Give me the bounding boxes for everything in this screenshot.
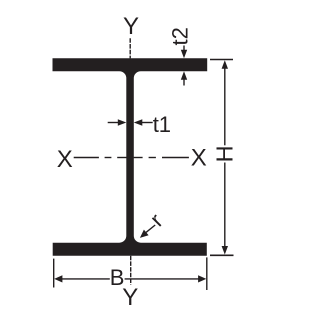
svg-text:H: H [211, 145, 237, 162]
centerline X-X left long dash [74, 157, 99, 159]
svg-text:Y: Y [122, 284, 138, 311]
t2 lower arrow (pointing up to flange bottom) [181, 71, 187, 85]
centerline Y-Y top segment [129, 38, 131, 58]
H dimension bottom extension tick [210, 254, 234, 256]
H dimension top extension tick [210, 59, 233, 61]
svg-text:r: r [145, 208, 168, 231]
t1 right arrow (pointing left at web) [134, 119, 153, 125]
t2 upper arrow (pointing down to flange top) [181, 46, 187, 59]
centerline X-X left short dash [105, 157, 112, 159]
svg-text:X: X [191, 145, 207, 172]
B dimension line with arrows [54, 275, 206, 282]
svg-text:X: X [57, 146, 73, 173]
centerline X-X right long dash [162, 157, 189, 159]
centerline X-X right short dash [149, 157, 156, 159]
svg-text:t1: t1 [153, 112, 171, 137]
H dimension line lower segment with down arrow [222, 163, 228, 255]
svg-text:Y: Y [123, 13, 139, 40]
t1 left arrow (pointing right at web) [108, 119, 127, 125]
centerline X-X left stub to web [117, 157, 126, 159]
centerline X-X right stub from web [134, 157, 143, 159]
svg-text:t2: t2 [168, 27, 193, 45]
r leader arrow (pointing at fillet) [140, 225, 155, 238]
B dimension right extension line [206, 257, 208, 290]
I-beam cross-section body [53, 58, 208, 255]
centerline Y-Y bottom segment [130, 256, 132, 285]
B dimension left extension line [53, 259, 55, 288]
H dimension line upper segment with up arrow [222, 60, 228, 145]
